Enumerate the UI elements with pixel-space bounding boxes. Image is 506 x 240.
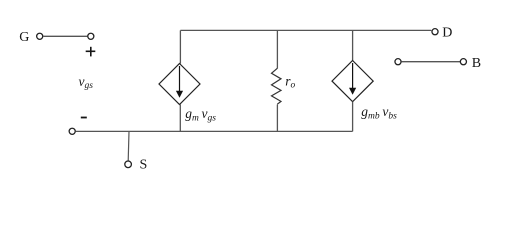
node D terminal circle bbox=[432, 29, 438, 35]
node gate-plus terminal circle bbox=[88, 33, 94, 39]
svg-text:D: D bbox=[442, 26, 452, 41]
node S terminal circle bbox=[125, 161, 132, 168]
wire right branch lower bbox=[352, 102, 354, 132]
wire middle branch lower bbox=[276, 105, 278, 132]
svg-text:vgs: vgs bbox=[79, 74, 94, 91]
svg-text:S: S bbox=[140, 158, 148, 173]
wire S stub bbox=[127, 131, 130, 161]
current source gm arrow bbox=[179, 66, 181, 92]
label plus bbox=[86, 51, 96, 53]
wire G stub bbox=[43, 35, 87, 37]
wire left branch lower bbox=[179, 105, 181, 132]
resistor ro zigzag bbox=[272, 68, 282, 104]
label minus bbox=[81, 117, 87, 119]
node source-minus terminal circle bbox=[69, 128, 75, 134]
wire left branch upper bbox=[179, 30, 181, 63]
node B right terminal circle bbox=[460, 59, 466, 65]
dependent current source gmb*vbs diamond bbox=[332, 61, 373, 102]
node B left terminal circle bbox=[395, 59, 401, 65]
wire right branch upper bbox=[352, 30, 354, 60]
dependent current source gm*vgs diamond bbox=[159, 64, 200, 105]
svg-text:gmb vbs: gmb vbs bbox=[361, 104, 397, 121]
current source gmb arrow bbox=[352, 63, 354, 89]
svg-text:gm vgs: gm vgs bbox=[185, 106, 216, 123]
wire top rail bbox=[180, 29, 431, 31]
wire bottom rail bbox=[76, 130, 353, 132]
svg-text:G: G bbox=[19, 30, 29, 45]
wire middle branch upper bbox=[276, 30, 278, 68]
svg-text:ro: ro bbox=[285, 73, 295, 90]
node G terminal circle bbox=[37, 33, 43, 39]
svg-text:B: B bbox=[472, 56, 481, 71]
wire B stub bbox=[401, 61, 460, 63]
